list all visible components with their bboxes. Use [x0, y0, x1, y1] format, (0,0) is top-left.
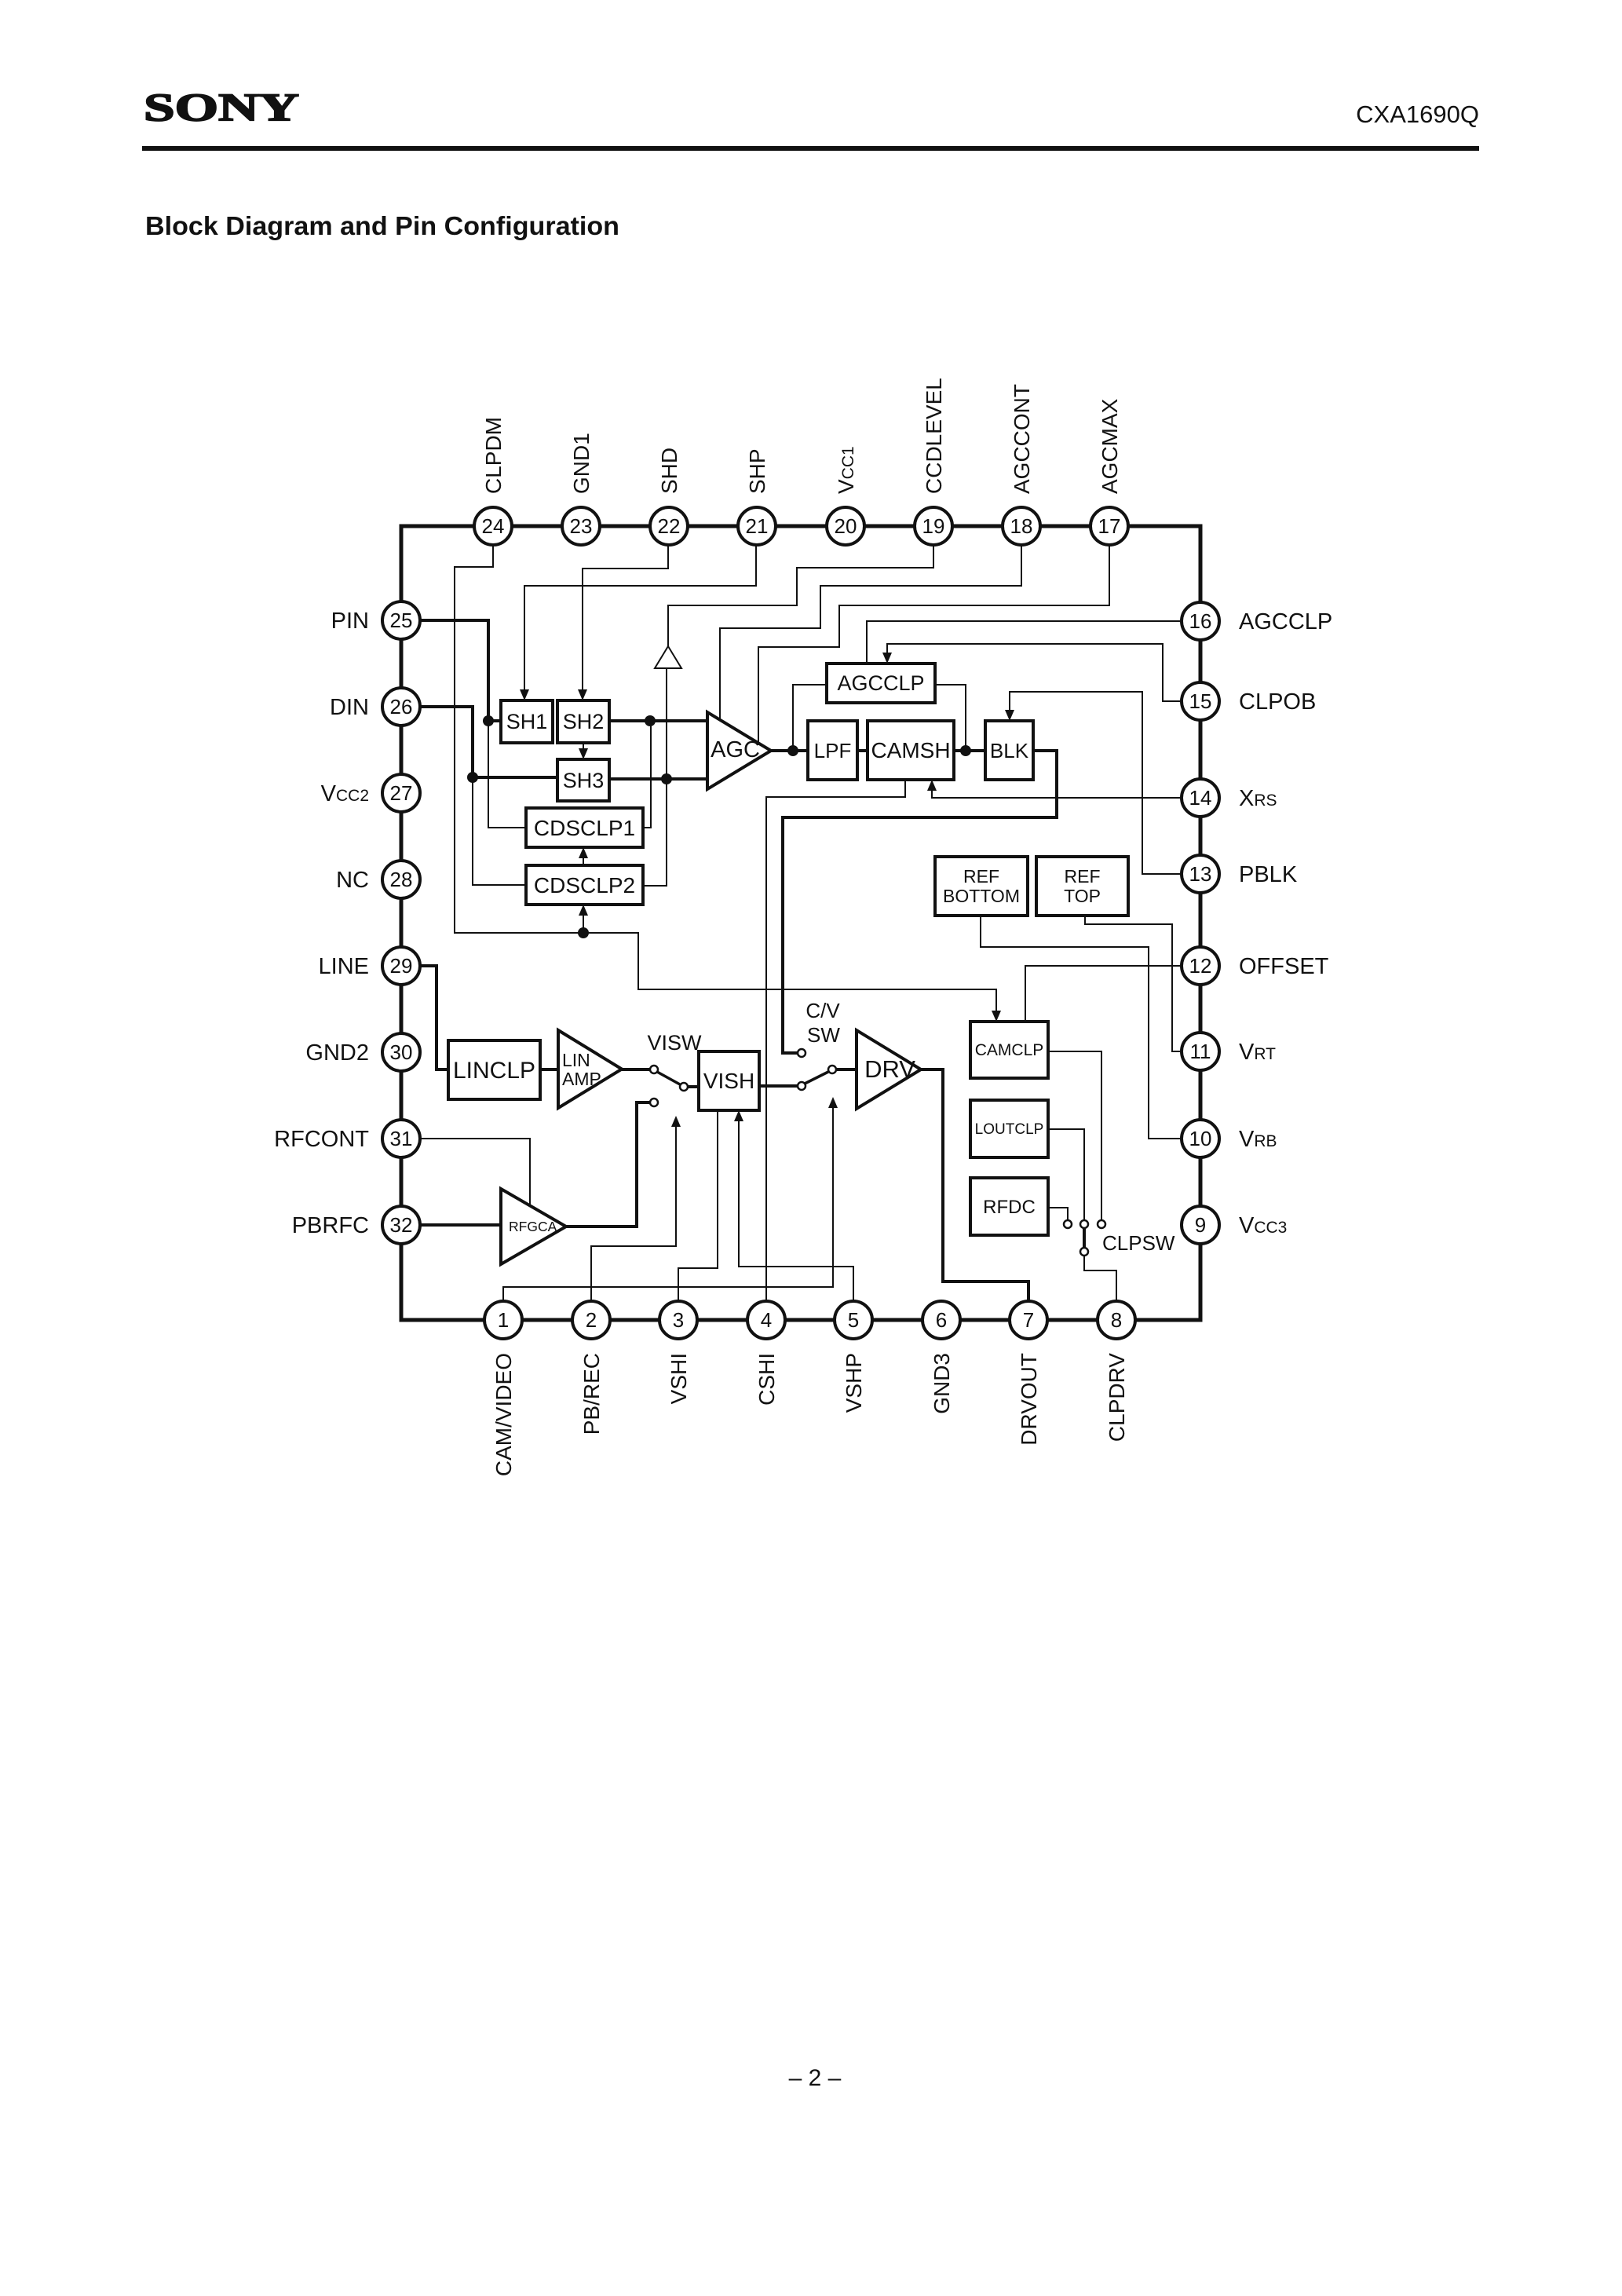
svg-text:LOUTCLP: LOUTCLP	[975, 1121, 1044, 1138]
svg-text:CAMCLP: CAMCLP	[975, 1041, 1044, 1059]
svg-text:DRV: DRV	[864, 1055, 915, 1083]
svg-text:14: 14	[1189, 786, 1212, 810]
svg-text:REF: REF	[963, 866, 999, 887]
svg-text:PIN: PIN	[331, 609, 369, 634]
svg-text:22: 22	[658, 514, 681, 538]
svg-text:3: 3	[673, 1308, 684, 1332]
svg-text:CLPDRV: CLPDRV	[1105, 1353, 1129, 1442]
svg-text:8: 8	[1111, 1308, 1122, 1332]
svg-text:GND3: GND3	[930, 1353, 954, 1414]
svg-text:DRVOUT: DRVOUT	[1017, 1353, 1041, 1446]
svg-text:17: 17	[1098, 514, 1121, 538]
svg-text:CLPDM: CLPDM	[481, 417, 506, 494]
svg-text:7: 7	[1023, 1308, 1034, 1332]
svg-text:– 2 –: – 2 –	[789, 2065, 842, 2091]
svg-text:29: 29	[390, 954, 413, 978]
svg-text:CAM/VIDEO: CAM/VIDEO	[491, 1353, 516, 1476]
svg-text:20: 20	[835, 514, 857, 538]
svg-text:TOP: TOP	[1064, 886, 1101, 906]
svg-text:VISH: VISH	[703, 1069, 754, 1093]
svg-text:SONY: SONY	[144, 85, 299, 129]
svg-text:CAMSH: CAMSH	[871, 738, 950, 762]
svg-text:2: 2	[586, 1308, 597, 1332]
svg-text:SHD: SHD	[657, 448, 681, 494]
svg-text:27: 27	[390, 781, 413, 805]
svg-text:CLPSW: CLPSW	[1102, 1231, 1175, 1255]
svg-text:19: 19	[922, 514, 945, 538]
svg-text:CSHI: CSHI	[754, 1353, 779, 1406]
svg-text:RFDC: RFDC	[983, 1197, 1036, 1218]
svg-text:18: 18	[1010, 514, 1033, 538]
svg-text:4: 4	[761, 1308, 772, 1332]
svg-text:16: 16	[1189, 609, 1212, 633]
svg-text:15: 15	[1189, 689, 1212, 713]
svg-text:REF: REF	[1065, 866, 1101, 887]
svg-text:GND2: GND2	[305, 1040, 369, 1066]
svg-text:VISW: VISW	[647, 1031, 702, 1055]
svg-text:SH1: SH1	[506, 710, 548, 733]
svg-text:30: 30	[390, 1040, 413, 1064]
svg-text:12: 12	[1189, 954, 1212, 978]
svg-text:DIN: DIN	[330, 695, 369, 720]
svg-text:26: 26	[390, 695, 413, 718]
svg-text:OFFSET: OFFSET	[1239, 954, 1329, 979]
svg-text:AGC: AGC	[711, 737, 760, 762]
svg-text:AMP: AMP	[562, 1069, 601, 1089]
svg-text:SW: SW	[807, 1023, 840, 1047]
svg-text:25: 25	[390, 609, 413, 632]
svg-text:1: 1	[498, 1308, 509, 1332]
svg-text:LPF: LPF	[814, 739, 852, 762]
svg-text:PBLK: PBLK	[1239, 862, 1298, 887]
svg-text:BOTTOM: BOTTOM	[943, 886, 1020, 906]
svg-text:9: 9	[1195, 1213, 1206, 1237]
svg-text:LINCLP: LINCLP	[453, 1058, 535, 1084]
svg-text:GND1: GND1	[569, 433, 594, 494]
svg-text:LINE: LINE	[319, 954, 369, 979]
svg-text:31: 31	[390, 1127, 413, 1150]
svg-text:AGCMAX: AGCMAX	[1098, 398, 1122, 494]
svg-text:VSHI: VSHI	[667, 1353, 691, 1404]
svg-text:24: 24	[482, 514, 505, 538]
svg-text:13: 13	[1189, 862, 1212, 886]
svg-text:10: 10	[1189, 1127, 1212, 1150]
svg-text:NC: NC	[336, 868, 369, 893]
svg-text:SH3: SH3	[563, 769, 605, 792]
svg-text:Block Diagram and Pin Configur: Block Diagram and Pin Configuration	[145, 211, 619, 240]
svg-text:AGCCLP: AGCCLP	[1239, 609, 1332, 634]
svg-text:SHP: SHP	[745, 448, 769, 494]
svg-text:11: 11	[1190, 1040, 1211, 1063]
svg-text:PBRFC: PBRFC	[292, 1213, 369, 1238]
svg-text:LIN: LIN	[562, 1050, 590, 1070]
svg-text:6: 6	[936, 1308, 947, 1332]
svg-text:AGCCONT: AGCCONT	[1010, 384, 1034, 494]
svg-text:CLPOB: CLPOB	[1239, 689, 1316, 715]
svg-text:CDSCLP1: CDSCLP1	[534, 816, 635, 840]
svg-text:PB/REC: PB/REC	[579, 1353, 604, 1435]
svg-text:CCDLEVEL: CCDLEVEL	[922, 378, 946, 494]
svg-text:21: 21	[746, 514, 769, 538]
svg-text:AGCCLP: AGCCLP	[837, 671, 924, 695]
svg-text:23: 23	[570, 514, 593, 538]
svg-text:5: 5	[848, 1308, 859, 1332]
svg-text:CDSCLP2: CDSCLP2	[534, 873, 635, 898]
svg-text:VSHP: VSHP	[842, 1353, 866, 1413]
svg-text:RFGCA: RFGCA	[509, 1219, 557, 1234]
svg-text:SH2: SH2	[563, 710, 605, 733]
svg-text:CXA1690Q: CXA1690Q	[1356, 101, 1479, 128]
svg-text:28: 28	[390, 868, 413, 891]
svg-text:32: 32	[390, 1213, 413, 1237]
svg-text:BLK: BLK	[990, 739, 1029, 762]
svg-text:RFCONT: RFCONT	[274, 1127, 369, 1152]
svg-text:C/V: C/V	[806, 999, 840, 1022]
